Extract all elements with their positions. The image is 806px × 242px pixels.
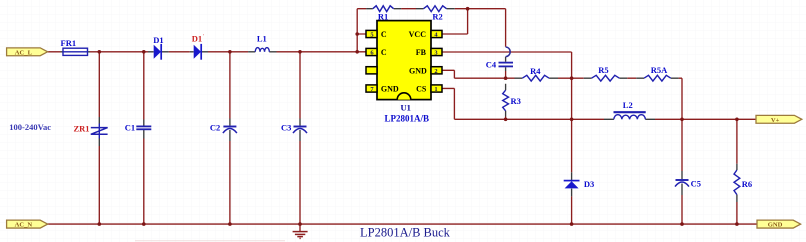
svg-text:GND: GND [768,222,783,229]
svg-text:C3: C3 [281,123,291,133]
svg-text:D1: D1 [153,35,163,45]
svg-text:LP2801A/B Buck: LP2801A/B Buck [360,225,451,239]
svg-text:GND: GND [409,66,427,75]
svg-text:CS: CS [416,85,427,94]
svg-text:R2: R2 [432,11,442,21]
svg-text:U1: U1 [401,103,411,113]
svg-text:D3: D3 [584,179,594,189]
svg-text:R6: R6 [742,179,752,189]
svg-text:C: C [381,30,387,39]
svg-text:C1: C1 [125,123,135,133]
svg-text:R5: R5 [598,65,608,75]
svg-text:R3: R3 [511,96,521,106]
svg-text:1: 1 [434,86,437,93]
svg-text:GND: GND [381,85,399,94]
svg-text:C4: C4 [486,60,497,70]
svg-text:R4: R4 [530,66,541,76]
svg-text:C: C [381,48,387,57]
svg-text:L1: L1 [257,33,267,43]
svg-text:R5A: R5A [651,65,668,75]
svg-text:D1: D1 [192,33,202,43]
svg-text:C2: C2 [210,123,220,133]
svg-text:2: 2 [434,68,437,75]
svg-text:V+: V+ [771,117,780,124]
svg-text:AC_L: AC_L [15,49,33,56]
svg-text:ZR1: ZR1 [73,123,89,133]
svg-text:LP2801A/B: LP2801A/B [385,113,430,123]
svg-text:C5: C5 [691,178,701,188]
svg-text:FB: FB [416,48,427,57]
svg-text:VCC: VCC [409,30,427,39]
svg-text:100-240Vac: 100-240Vac [9,122,51,132]
svg-text:FR1: FR1 [61,38,77,48]
svg-text:L2: L2 [623,100,633,110]
svg-text:AC_N: AC_N [15,222,33,229]
svg-text:R1: R1 [378,11,388,21]
